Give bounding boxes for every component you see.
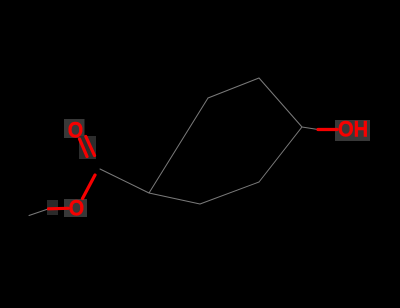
label matte box OH — [335, 120, 370, 141]
label matte box ester O — [64, 199, 87, 217]
skeleton: wire bonds (faint) — [29, 78, 318, 216]
label matte box methyl bond — [47, 200, 58, 215]
label matte box double bond — [79, 136, 96, 159]
bond S5 — [149, 193, 200, 204]
bond O-CH3 red half — [49, 207, 69, 211]
bond S2 — [149, 98, 208, 193]
svg-text:O: O — [69, 196, 84, 221]
double bond C=O line outer — [86, 137, 95, 156]
svg-text:OH: OH — [338, 117, 368, 142]
bond S6 — [200, 182, 259, 204]
bond ring-OH red half — [318, 128, 337, 131]
svg-text:O: O — [68, 118, 83, 143]
label matte box carbonyl O — [64, 119, 85, 138]
bond S7 — [259, 127, 302, 182]
bond S4 — [259, 78, 302, 127]
bond O-C(=O) red — [83, 175, 96, 199]
bond S3 — [208, 78, 259, 98]
red bonds — [49, 130, 338, 209]
bond to OH black half S8 — [302, 127, 318, 130]
double bond C=O line inner — [80, 139, 88, 157]
bond CH3 stub — [29, 209, 48, 216]
bond C-CH2 S1 — [100, 169, 149, 193]
